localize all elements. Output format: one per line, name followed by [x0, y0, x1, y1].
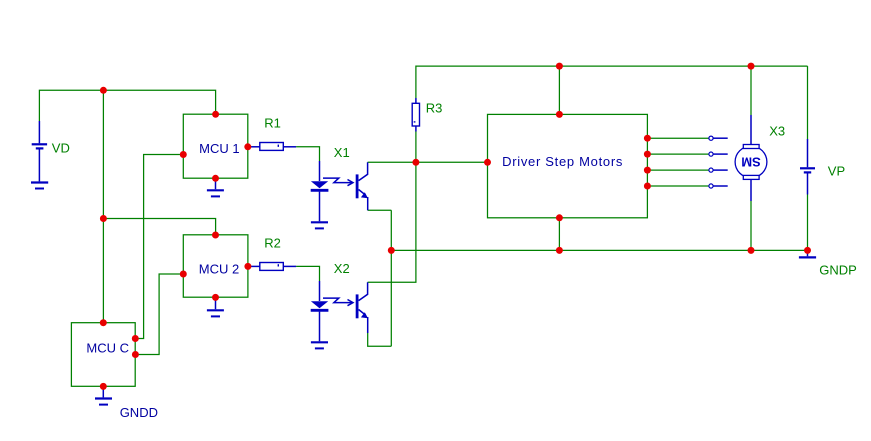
- svg-text:X3: X3: [769, 123, 785, 138]
- svg-text:GNDD: GNDD: [120, 405, 158, 420]
- svg-text:VP: VP: [828, 164, 845, 179]
- svg-text:Driver Step Motors: Driver Step Motors: [502, 154, 623, 169]
- svg-text:R3: R3: [426, 100, 443, 115]
- svg-text:MCU 1: MCU 1: [199, 141, 239, 156]
- svg-text:VD: VD: [52, 140, 70, 155]
- svg-text:GNDP: GNDP: [819, 263, 857, 278]
- svg-text:MCU 2: MCU 2: [199, 262, 239, 277]
- svg-text:R1: R1: [264, 116, 281, 131]
- svg-text:X1: X1: [334, 145, 350, 160]
- svg-text:MCU C: MCU C: [86, 341, 129, 356]
- svg-text:X2: X2: [334, 261, 350, 276]
- svg-text:R2: R2: [264, 236, 281, 251]
- svg-text:SM: SM: [741, 154, 761, 169]
